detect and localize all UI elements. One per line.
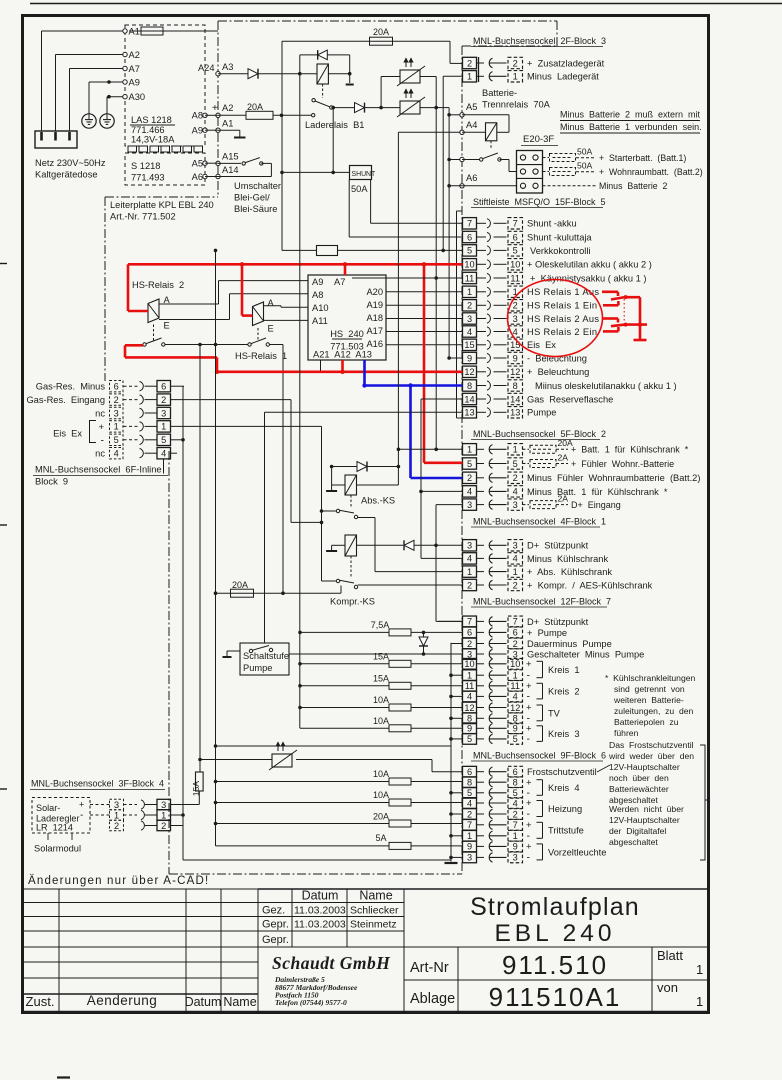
svg-text:Kaltgerätedose: Kaltgerätedose bbox=[35, 170, 98, 180]
svg-text:+ Kompr. / AES-Kühlschrank: + Kompr. / AES-Kühlschrank bbox=[527, 580, 653, 590]
svg-text:Gas Reserveflasche: Gas Reserveflasche bbox=[527, 394, 613, 404]
svg-text:A9: A9 bbox=[192, 126, 203, 136]
svg-text:Minus Batterie 1 verbunden: Minus Batterie 1 verbunden sein. bbox=[560, 122, 702, 132]
svg-text:+: + bbox=[79, 800, 84, 810]
svg-text:1: 1 bbox=[114, 810, 119, 820]
svg-text:+ Pumpe: + Pumpe bbox=[527, 628, 567, 638]
svg-text:15: 15 bbox=[510, 340, 520, 350]
svg-text:8: 8 bbox=[513, 381, 518, 391]
svg-text:6: 6 bbox=[114, 382, 119, 392]
svg-text:Eis Ex: Eis Ex bbox=[527, 340, 556, 350]
svg-text:HS 240: HS 240 bbox=[330, 329, 364, 339]
svg-text:8: 8 bbox=[513, 778, 518, 788]
svg-text:A30: A30 bbox=[129, 92, 146, 102]
svg-text:1: 1 bbox=[467, 72, 472, 82]
svg-text:HS Relais 2 Ein: HS Relais 2 Ein bbox=[527, 327, 597, 337]
svg-text:Pumpe: Pumpe bbox=[243, 663, 272, 673]
svg-text:A9: A9 bbox=[129, 78, 140, 88]
svg-text:3: 3 bbox=[513, 500, 518, 510]
svg-text:9: 9 bbox=[467, 724, 472, 734]
svg-text:LR 1214: LR 1214 bbox=[36, 823, 73, 833]
svg-text:1: 1 bbox=[696, 962, 703, 977]
svg-text:3: 3 bbox=[513, 314, 518, 324]
svg-text:Ablage: Ablage bbox=[410, 991, 455, 1007]
svg-text:3: 3 bbox=[513, 541, 518, 551]
svg-text:10A: 10A bbox=[373, 716, 389, 726]
svg-text:-: - bbox=[527, 830, 531, 842]
svg-text:+ Starterbatt. (Batt.1): + Starterbatt. (Batt.1) bbox=[599, 153, 686, 163]
svg-text:2: 2 bbox=[467, 580, 472, 590]
svg-text:14,3V-18A: 14,3V-18A bbox=[131, 135, 175, 145]
svg-text:Art.-Nr. 771.502: Art.-Nr. 771.502 bbox=[110, 212, 176, 222]
svg-text:MNL-Buchsensockel 9F-Block 6: MNL-Buchsensockel 9F-Block 6 bbox=[473, 751, 606, 761]
svg-text:3: 3 bbox=[467, 541, 472, 551]
svg-text:-: - bbox=[527, 808, 531, 820]
svg-text:3: 3 bbox=[467, 853, 472, 863]
svg-text:7: 7 bbox=[467, 820, 472, 830]
svg-text:* Kühlschrankleitungen: * Kühlschrankleitungen bbox=[605, 673, 696, 683]
svg-text:Stromlaufplan: Stromlaufplan bbox=[470, 893, 640, 921]
svg-text:MNL-Buchsensockel 4F-Block 1: MNL-Buchsensockel 4F-Block 1 bbox=[473, 517, 606, 527]
svg-text:noch über den: noch über den bbox=[609, 773, 669, 783]
svg-text:14: 14 bbox=[464, 394, 474, 404]
svg-text:2: 2 bbox=[467, 473, 472, 483]
svg-text:10: 10 bbox=[464, 260, 474, 270]
svg-text:wird weder über den: wird weder über den bbox=[608, 751, 694, 761]
svg-text:5: 5 bbox=[513, 734, 518, 744]
svg-text:10: 10 bbox=[510, 659, 520, 669]
svg-text:Block 9: Block 9 bbox=[35, 477, 68, 487]
svg-text:Aenderung: Aenderung bbox=[87, 993, 158, 1008]
svg-text:6: 6 bbox=[467, 232, 472, 242]
svg-text:Name: Name bbox=[359, 889, 392, 903]
svg-text:-: - bbox=[527, 669, 531, 681]
svg-text:12: 12 bbox=[464, 703, 474, 713]
svg-text:A18: A18 bbox=[366, 313, 383, 323]
svg-text:20A: 20A bbox=[232, 580, 248, 590]
svg-text:+ Käynnistysakku ( akku 1 ): + Käynnistysakku ( akku 1 ) bbox=[530, 273, 647, 283]
svg-text:5A: 5A bbox=[375, 833, 386, 843]
svg-text:Zust.: Zust. bbox=[26, 994, 55, 1009]
svg-text:2: 2 bbox=[513, 301, 518, 311]
svg-text:2: 2 bbox=[467, 809, 472, 819]
svg-text:-: - bbox=[527, 733, 531, 745]
svg-text:Kompr.-KS: Kompr.-KS bbox=[330, 597, 375, 607]
svg-text:2A: 2A bbox=[558, 494, 569, 504]
svg-text:4: 4 bbox=[161, 449, 166, 459]
svg-text:Shunt -akku: Shunt -akku bbox=[527, 219, 577, 229]
svg-text:E20-3F: E20-3F bbox=[523, 134, 554, 145]
svg-text:50A: 50A bbox=[351, 184, 368, 194]
svg-text:5: 5 bbox=[467, 788, 472, 798]
svg-text:zuleitungen, zu den: zuleitungen, zu den bbox=[614, 706, 694, 716]
svg-text:13: 13 bbox=[510, 408, 520, 418]
svg-text:Minus Batt. 1 für Kühlschr: Minus Batt. 1 für Kühlschrank * bbox=[527, 487, 668, 497]
svg-text:Batteriewächter: Batteriewächter bbox=[609, 784, 669, 794]
svg-text:Heizung: Heizung bbox=[548, 804, 582, 814]
svg-text:2: 2 bbox=[467, 639, 472, 649]
svg-text:1: 1 bbox=[513, 831, 518, 841]
svg-text:3: 3 bbox=[467, 314, 472, 324]
svg-text:6: 6 bbox=[513, 628, 518, 638]
svg-text:911.510: 911.510 bbox=[502, 950, 608, 980]
svg-text:A11: A11 bbox=[312, 316, 328, 326]
svg-text:2: 2 bbox=[161, 821, 166, 831]
svg-text:10: 10 bbox=[510, 260, 520, 270]
svg-text:11: 11 bbox=[510, 273, 520, 283]
svg-text:4: 4 bbox=[467, 798, 472, 808]
svg-text:Solarmodul: Solarmodul bbox=[34, 844, 81, 854]
svg-text:771.466: 771.466 bbox=[131, 125, 165, 135]
svg-text:-: - bbox=[527, 787, 531, 799]
svg-text:10A: 10A bbox=[373, 790, 389, 800]
svg-text:7: 7 bbox=[513, 820, 518, 830]
svg-text:+ Zusatzladegerät: + Zusatzladegerät bbox=[527, 58, 605, 68]
svg-text:7,5A: 7,5A bbox=[371, 620, 390, 630]
svg-text:+ Wohnraumbatt. (Batt.2): + Wohnraumbatt. (Batt.2) bbox=[599, 167, 703, 177]
svg-text:von: von bbox=[657, 980, 678, 995]
svg-text:-: - bbox=[527, 691, 531, 703]
svg-text:Batterie-: Batterie- bbox=[482, 88, 517, 98]
svg-text:9: 9 bbox=[513, 724, 518, 734]
svg-text:Minus Batterie 2: Minus Batterie 2 bbox=[599, 181, 668, 191]
svg-text:A24: A24 bbox=[198, 63, 215, 73]
svg-text:2: 2 bbox=[467, 58, 472, 68]
svg-text:Pumpe: Pumpe bbox=[527, 408, 556, 418]
svg-text:3: 3 bbox=[513, 649, 518, 659]
svg-text:MNL-Buchsensockel 3F-Block 4: MNL-Buchsensockel 3F-Block 4 bbox=[31, 779, 164, 789]
svg-text:A10: A10 bbox=[312, 303, 329, 313]
svg-text:A15: A15 bbox=[222, 152, 239, 162]
svg-text:4: 4 bbox=[513, 798, 518, 808]
svg-text:2: 2 bbox=[161, 395, 166, 405]
svg-text:+ Oleskelutilan akku ( akku 2: + Oleskelutilan akku ( akku 2 ) bbox=[527, 260, 652, 270]
svg-text:6: 6 bbox=[161, 382, 166, 392]
svg-text:6: 6 bbox=[467, 767, 472, 777]
svg-text:7: 7 bbox=[513, 617, 518, 627]
svg-text:3: 3 bbox=[467, 500, 472, 510]
svg-text:S 1218: S 1218 bbox=[131, 161, 160, 171]
svg-text:8: 8 bbox=[467, 381, 472, 391]
svg-text:4: 4 bbox=[467, 554, 472, 564]
svg-text:A2: A2 bbox=[222, 103, 233, 113]
svg-text:+ Abs. Kühlschrank: + Abs. Kühlschrank bbox=[527, 567, 612, 577]
svg-text:EBL 240: EBL 240 bbox=[494, 920, 615, 947]
svg-text:4: 4 bbox=[114, 449, 119, 459]
svg-text:4: 4 bbox=[513, 692, 518, 702]
svg-text:1: 1 bbox=[161, 810, 166, 820]
svg-text:5: 5 bbox=[513, 459, 518, 469]
svg-text:Trennrelais 70A: Trennrelais 70A bbox=[482, 100, 551, 110]
svg-text:Schaudt GmbH: Schaudt GmbH bbox=[272, 953, 391, 973]
svg-text:Kreis 4: Kreis 4 bbox=[548, 783, 580, 793]
svg-text:2: 2 bbox=[513, 473, 518, 483]
svg-text:15: 15 bbox=[464, 340, 474, 350]
svg-text:MNL-Buchsensockel 2F-Block 3: MNL-Buchsensockel 2F-Block 3 bbox=[473, 36, 606, 46]
svg-text:A5: A5 bbox=[192, 159, 203, 169]
svg-text:Minus Fühler Wohnraumbatteri: Minus Fühler Wohnraumbatterie (Batt.2) bbox=[527, 473, 700, 483]
svg-text:15A: 15A bbox=[373, 651, 389, 661]
svg-text:4: 4 bbox=[467, 327, 472, 337]
svg-text:2: 2 bbox=[513, 580, 518, 590]
svg-text:Kreis 2: Kreis 2 bbox=[548, 687, 580, 697]
svg-text:9: 9 bbox=[467, 353, 472, 363]
svg-text:3: 3 bbox=[161, 408, 166, 418]
svg-text:11: 11 bbox=[465, 273, 475, 283]
svg-text:HS-Relais 1: HS-Relais 1 bbox=[235, 351, 287, 361]
svg-text:SHUNT: SHUNT bbox=[352, 171, 377, 178]
svg-text:A6: A6 bbox=[192, 172, 203, 182]
svg-text:Das Frostschutzventil: Das Frostschutzventil bbox=[609, 740, 694, 750]
svg-text:+ Beleuchtung: + Beleuchtung bbox=[527, 367, 589, 377]
svg-text:10: 10 bbox=[464, 659, 474, 669]
svg-text:Blei-Gel/: Blei-Gel/ bbox=[234, 193, 270, 203]
svg-text:D+ Stützpunkt: D+ Stützpunkt bbox=[527, 541, 589, 551]
svg-text:1: 1 bbox=[467, 445, 472, 455]
svg-text:sind getrennt von: sind getrennt von bbox=[614, 684, 685, 694]
svg-text:11.03.2003: 11.03.2003 bbox=[294, 905, 346, 917]
svg-text:5: 5 bbox=[467, 246, 472, 256]
svg-text:A2: A2 bbox=[129, 50, 140, 60]
svg-text:Gepr.: Gepr. bbox=[262, 919, 289, 931]
svg-text:-: - bbox=[101, 435, 105, 447]
svg-text:8: 8 bbox=[513, 714, 518, 724]
svg-text:Netz 230V~50Hz: Netz 230V~50Hz bbox=[35, 158, 106, 168]
svg-text:4: 4 bbox=[467, 487, 472, 497]
svg-text:führen: führen bbox=[614, 728, 639, 738]
svg-text:A20: A20 bbox=[366, 287, 383, 297]
svg-text:Minus Batterie 2 muß exter: Minus Batterie 2 muß extern mit bbox=[560, 110, 701, 120]
svg-text:Trittstufe: Trittstufe bbox=[548, 826, 584, 836]
svg-text:1: 1 bbox=[467, 567, 472, 577]
svg-text:A8: A8 bbox=[312, 290, 323, 300]
svg-text:A16: A16 bbox=[366, 339, 383, 349]
svg-text:3: 3 bbox=[513, 853, 518, 863]
svg-text:1: 1 bbox=[161, 422, 166, 432]
svg-text:Geschalteter Minus Pumpe: Geschalteter Minus Pumpe bbox=[527, 649, 644, 659]
svg-text:Solar-: Solar- bbox=[36, 803, 60, 813]
svg-text:4: 4 bbox=[513, 487, 518, 497]
svg-text:E: E bbox=[164, 321, 170, 331]
svg-text:Kreis 1: Kreis 1 bbox=[548, 665, 580, 675]
svg-text:Miinus oleskelutilanakku ( akk: Miinus oleskelutilanakku ( akku 1 ) bbox=[535, 381, 677, 391]
svg-text:Verkkokontrolli: Verkkokontrolli bbox=[530, 246, 590, 256]
svg-text:8: 8 bbox=[467, 778, 472, 788]
svg-text:Minus Ladegerät: Minus Ladegerät bbox=[527, 72, 599, 82]
svg-text:15A: 15A bbox=[373, 673, 389, 683]
svg-text:A9: A9 bbox=[312, 277, 323, 287]
svg-text:5: 5 bbox=[513, 246, 518, 256]
svg-text:20A: 20A bbox=[247, 102, 263, 112]
svg-text:50A: 50A bbox=[577, 147, 593, 157]
svg-text:Eis Ex: Eis Ex bbox=[53, 429, 82, 439]
svg-text:12: 12 bbox=[510, 367, 520, 377]
svg-text:1: 1 bbox=[513, 445, 518, 455]
svg-text:5: 5 bbox=[513, 788, 518, 798]
svg-text:Änderungen nur über A-CAD!: Änderungen nur über A-CAD! bbox=[28, 875, 209, 887]
svg-text:1: 1 bbox=[513, 567, 518, 577]
svg-text:Leiterplatte KPL EBL 240: Leiterplatte KPL EBL 240 bbox=[110, 200, 214, 210]
svg-text:HS Relais 1 Aus: HS Relais 1 Aus bbox=[527, 287, 599, 297]
svg-text:abgeschaltet: abgeschaltet bbox=[609, 837, 658, 847]
svg-text:13: 13 bbox=[464, 408, 474, 418]
svg-text:2A: 2A bbox=[558, 453, 569, 463]
svg-text:3: 3 bbox=[114, 800, 119, 810]
svg-text:2: 2 bbox=[513, 809, 518, 819]
svg-text:nc: nc bbox=[95, 408, 105, 418]
svg-text:A4: A4 bbox=[466, 120, 477, 130]
svg-text:1: 1 bbox=[467, 831, 472, 841]
svg-text:1: 1 bbox=[513, 72, 518, 82]
svg-text:HS Relais 2 Aus: HS Relais 2 Aus bbox=[527, 314, 599, 324]
svg-text:2: 2 bbox=[114, 821, 119, 831]
svg-text:Datum: Datum bbox=[185, 995, 222, 1009]
svg-text:9: 9 bbox=[513, 353, 518, 363]
svg-text:Minus Kühlschrank: Minus Kühlschrank bbox=[527, 554, 608, 564]
svg-text:5: 5 bbox=[114, 435, 119, 445]
svg-text:Shunt -kuluttaja: Shunt -kuluttaja bbox=[527, 232, 592, 242]
svg-text:7: 7 bbox=[513, 219, 518, 229]
svg-text:HS Relais 1 Ein: HS Relais 1 Ein bbox=[527, 301, 597, 311]
svg-text:Dauerminus Pumpe: Dauerminus Pumpe bbox=[527, 639, 612, 649]
svg-text:9: 9 bbox=[513, 842, 518, 852]
svg-text:Name: Name bbox=[223, 995, 256, 1009]
svg-text:A6: A6 bbox=[466, 173, 477, 183]
svg-text:771.493: 771.493 bbox=[131, 173, 165, 183]
svg-text:Gez.: Gez. bbox=[262, 905, 285, 917]
svg-text:9: 9 bbox=[467, 842, 472, 852]
svg-text:1: 1 bbox=[467, 287, 472, 297]
svg-text:D+ Stützpunkt: D+ Stützpunkt bbox=[527, 617, 589, 627]
svg-text:5: 5 bbox=[467, 459, 472, 469]
svg-text:6: 6 bbox=[467, 628, 472, 638]
svg-text:Schliecker: Schliecker bbox=[350, 905, 399, 917]
svg-text:E: E bbox=[268, 324, 274, 334]
svg-text:1: 1 bbox=[114, 422, 119, 432]
svg-text:50A: 50A bbox=[577, 161, 593, 171]
svg-text:A7: A7 bbox=[129, 64, 140, 74]
svg-text:Blatt: Blatt bbox=[657, 948, 683, 963]
svg-text:5: 5 bbox=[161, 435, 166, 445]
svg-text:5: 5 bbox=[467, 734, 472, 744]
svg-text:MNL-Buchsensockel 6F-Inline: MNL-Buchsensockel 6F-Inline bbox=[35, 465, 162, 475]
svg-text:Werden nicht über: Werden nicht über bbox=[609, 804, 684, 814]
svg-text:nc: nc bbox=[95, 449, 105, 459]
svg-text:MNL-Buchsensockel 12F-Block: MNL-Buchsensockel 12F-Block 7 bbox=[473, 597, 611, 607]
svg-text:D+ Eingang: D+ Eingang bbox=[571, 500, 621, 510]
svg-text:Frostschutzventil: Frostschutzventil bbox=[527, 767, 597, 777]
svg-text:Telefon (07544) 9577-0: Telefon (07544) 9577-0 bbox=[275, 998, 347, 1007]
svg-text:LAS 1218: LAS 1218 bbox=[131, 115, 172, 125]
svg-text:- Beleuchtung: - Beleuchtung bbox=[527, 353, 587, 363]
svg-text:Kreis 3: Kreis 3 bbox=[548, 729, 580, 739]
svg-text:A7: A7 bbox=[334, 277, 345, 287]
svg-text:Art-Nr: Art-Nr bbox=[410, 960, 449, 976]
svg-text:3: 3 bbox=[114, 408, 119, 418]
svg-text:Vorzeltleuchte: Vorzeltleuchte bbox=[548, 847, 606, 857]
svg-text:4: 4 bbox=[513, 327, 518, 337]
svg-text:2: 2 bbox=[513, 58, 518, 68]
svg-text:12: 12 bbox=[510, 703, 520, 713]
svg-text:8: 8 bbox=[467, 714, 472, 724]
svg-text:A17: A17 bbox=[366, 326, 383, 336]
svg-text:12: 12 bbox=[464, 367, 474, 377]
svg-text:+: + bbox=[98, 422, 104, 433]
svg-text:1: 1 bbox=[513, 671, 518, 681]
svg-text:911510A1: 911510A1 bbox=[489, 982, 622, 1012]
svg-text:4: 4 bbox=[467, 692, 472, 702]
svg-text:A19: A19 bbox=[366, 300, 383, 310]
svg-text:-: - bbox=[80, 810, 83, 821]
svg-text:weiteren Batterie-: weiteren Batterie- bbox=[613, 695, 684, 705]
svg-text:1: 1 bbox=[467, 671, 472, 681]
svg-text:A14: A14 bbox=[222, 165, 239, 175]
svg-text:11: 11 bbox=[465, 681, 475, 691]
svg-text:20A: 20A bbox=[373, 27, 389, 37]
svg-text:6: 6 bbox=[513, 232, 518, 242]
svg-text:A: A bbox=[268, 298, 275, 308]
svg-text:Blei-Säure: Blei-Säure bbox=[234, 204, 277, 214]
svg-text:Gas-Res. Minus: Gas-Res. Minus bbox=[36, 382, 106, 392]
svg-text:MNL-Buchsensockel 5F-Block 2: MNL-Buchsensockel 5F-Block 2 bbox=[473, 429, 606, 439]
svg-text:A8: A8 bbox=[192, 111, 203, 121]
svg-text:3: 3 bbox=[161, 800, 166, 810]
svg-text:-: - bbox=[527, 852, 531, 864]
svg-text:20A: 20A bbox=[373, 812, 389, 822]
svg-text:Datum: Datum bbox=[302, 889, 339, 903]
svg-text:10A: 10A bbox=[373, 695, 389, 705]
svg-text:7: 7 bbox=[467, 617, 472, 627]
svg-text:Gepr.: Gepr. bbox=[262, 934, 289, 946]
svg-text:Abs.-KS: Abs.-KS bbox=[361, 496, 395, 506]
svg-text:7: 7 bbox=[467, 219, 472, 229]
svg-text:Stiftleiste MSFQ/O 15F-Block: Stiftleiste MSFQ/O 15F-Block 5 bbox=[473, 197, 606, 207]
svg-text:2: 2 bbox=[513, 639, 518, 649]
svg-text:6: 6 bbox=[513, 767, 518, 777]
svg-text:12V-Hauptschalter: 12V-Hauptschalter bbox=[609, 762, 680, 772]
svg-text:11.03.2003: 11.03.2003 bbox=[294, 919, 346, 931]
svg-text:11: 11 bbox=[510, 681, 520, 691]
svg-text:1: 1 bbox=[696, 994, 703, 1009]
svg-text:A21 A12 A13: A21 A12 A13 bbox=[313, 350, 372, 360]
svg-text:TV: TV bbox=[548, 708, 561, 718]
svg-text:A5: A5 bbox=[466, 102, 477, 112]
svg-text:A3: A3 bbox=[222, 62, 233, 72]
svg-text:Steinmetz: Steinmetz bbox=[350, 919, 397, 931]
svg-text:+: + bbox=[212, 103, 218, 114]
svg-text:4: 4 bbox=[513, 554, 518, 564]
svg-text:+: + bbox=[526, 659, 532, 670]
svg-text:2: 2 bbox=[467, 301, 472, 311]
svg-text:Umschalter: Umschalter bbox=[234, 181, 281, 191]
svg-text:der Digitaltafel: der Digitaltafel bbox=[609, 826, 666, 836]
svg-text:+ Batt. 1 für Kühlschrank: + Batt. 1 für Kühlschrank * bbox=[571, 445, 689, 455]
svg-text:+ Fühler Wohnr.-Batterie: + Fühler Wohnr.-Batterie bbox=[571, 459, 674, 469]
svg-text:HS-Relais 2: HS-Relais 2 bbox=[132, 280, 184, 290]
svg-text:14: 14 bbox=[510, 394, 520, 404]
svg-text:Batteriepolen zu: Batteriepolen zu bbox=[614, 717, 679, 727]
svg-text:10A: 10A bbox=[373, 769, 389, 779]
svg-text:Gas-Res. Eingang: Gas-Res. Eingang bbox=[26, 395, 105, 405]
svg-text:Laderelais B1: Laderelais B1 bbox=[305, 120, 364, 130]
svg-text:12V-Hauptschalter: 12V-Hauptschalter bbox=[609, 815, 680, 825]
svg-text:2: 2 bbox=[114, 395, 119, 405]
svg-text:A1: A1 bbox=[222, 119, 233, 129]
